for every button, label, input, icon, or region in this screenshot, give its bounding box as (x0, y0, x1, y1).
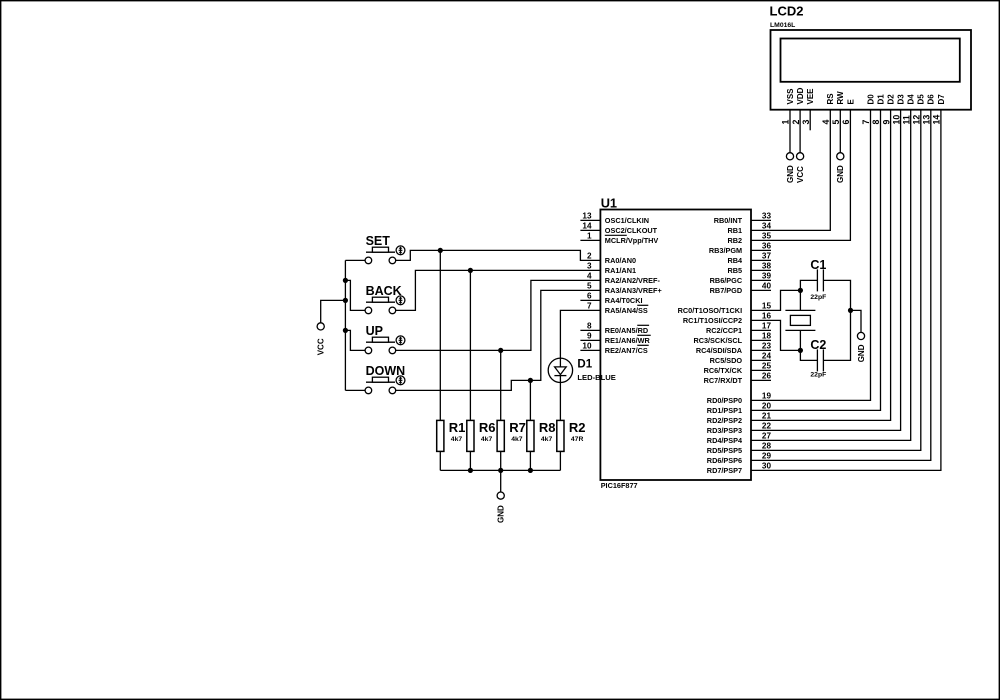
svg-text:R7: R7 (509, 420, 526, 435)
svg-text:5: 5 (587, 282, 592, 291)
svg-text:VDD: VDD (796, 87, 805, 104)
svg-text:19: 19 (762, 392, 772, 401)
svg-text:D5: D5 (917, 94, 926, 105)
svg-text:RA4/T0CKI: RA4/T0CKI (605, 296, 643, 305)
U1 pin 37 (RB4) (727, 252, 771, 265)
junction UP/R7 (498, 348, 503, 353)
svg-text:RS: RS (826, 93, 835, 105)
wire DOWN to U1 pin 5 (RA3) (392, 290, 600, 390)
wire LCD2 pin 1 (VSS) to GND terminal (789, 110, 791, 154)
op-amp U1 body (PIC16F877 microcontroller) (600, 196, 751, 490)
svg-text:MCLR/Vpp/THV: MCLR/Vpp/THV (605, 236, 659, 245)
U1 pin 36 (RB3/PGM) (709, 242, 772, 255)
svg-text:40: 40 (762, 282, 772, 291)
svg-text:D0: D0 (866, 94, 875, 105)
ground terminal (resistor rail) (497, 492, 506, 523)
svg-text:RD1/PSP1: RD1/PSP1 (707, 406, 742, 415)
svg-text:24: 24 (762, 352, 772, 361)
LCD2 pin 6 label (E) (841, 99, 855, 125)
U1 pin 30 (RD7/PSP7) (707, 462, 772, 475)
svg-text:29: 29 (762, 452, 772, 461)
LCD2 pin 9 label (D2) (881, 94, 895, 125)
svg-text:D2: D2 (887, 94, 896, 105)
U1 pin 19 (RD0/PSP0) (707, 392, 772, 405)
svg-text:6: 6 (587, 292, 592, 301)
U1 pin 18 (RC3/SCK/SCL) (693, 332, 771, 345)
svg-text:GND: GND (497, 505, 506, 523)
svg-text:RD5/PSP5: RD5/PSP5 (707, 446, 742, 455)
wire R8 top lead to DOWN net (529, 380, 531, 420)
wire cap bus to GND terminal near crystal (851, 310, 862, 332)
wire rail to UP left terminal (345, 330, 368, 350)
resistor R2 (47R) (557, 420, 586, 452)
U1 pin 8 (RE0/AN5/RD) (580, 322, 649, 335)
svg-text:37: 37 (762, 252, 772, 261)
LCD2 pin 8 label (D1) (871, 94, 885, 125)
svg-text:D6: D6 (927, 94, 936, 105)
svg-text:7: 7 (861, 120, 871, 125)
wire U1 pin 35 (RB2) to LCD2 E pin 6 (751, 110, 850, 241)
svg-text:R1: R1 (449, 420, 466, 435)
svg-text:RB4: RB4 (727, 256, 743, 265)
wire SET to U1 pin 2 (RA0) (392, 250, 600, 260)
ground terminal (LCD VSS) (786, 153, 795, 183)
diode D1 (LED-BLUE) (548, 358, 616, 382)
U1 pin 40 (RB7/PGD) (710, 282, 772, 295)
svg-text:4k7: 4k7 (451, 436, 463, 443)
LCD2 pin 1 label (VSS) (781, 88, 795, 125)
svg-text:39: 39 (762, 272, 772, 281)
U1 pin 26 (RC7/RX/DT) (704, 372, 772, 385)
svg-text:RD2/PSP2: RD2/PSP2 (707, 416, 742, 425)
push button UP (365, 324, 405, 354)
wire R7 top lead to UP net (500, 350, 502, 420)
LCD2 pin 13 label (D6) (922, 94, 936, 125)
U1 pin 10 (RE2/AN7/CS) (580, 342, 648, 355)
svg-text:2: 2 (587, 252, 592, 261)
wire rail to VCC terminal (321, 300, 346, 323)
U1 pin 4 (RA2/AN2/VREF-) (587, 272, 661, 285)
junction SET/R1 (438, 248, 443, 253)
svg-text:11: 11 (901, 115, 911, 124)
svg-text:GND: GND (786, 165, 795, 183)
junction rail/R8 (528, 468, 533, 473)
svg-text:D1: D1 (577, 359, 592, 371)
U1 pin 25 (RC6/TX/CK) (704, 362, 772, 375)
svg-text:RC2/CCP1: RC2/CCP1 (706, 326, 742, 335)
svg-text:RA3/AN3/VREF+: RA3/AN3/VREF+ (605, 286, 662, 295)
svg-text:RB3/PGM: RB3/PGM (709, 246, 742, 255)
svg-text:16: 16 (762, 312, 772, 321)
svg-text:22: 22 (762, 422, 772, 431)
svg-text:4k7: 4k7 (481, 436, 493, 443)
crystal X1 (785, 310, 815, 330)
svg-text:13: 13 (582, 212, 592, 221)
svg-text:4k7: 4k7 (511, 436, 523, 443)
junction crystal top/pin15 (798, 288, 803, 293)
U1 pin 27 (RD4/PSP4) (707, 432, 772, 445)
resistor R1 (4k7) (437, 420, 466, 452)
svg-text:26: 26 (762, 372, 772, 381)
svg-text:GND: GND (857, 344, 866, 362)
resistor R8 (4k7) (527, 420, 556, 452)
svg-text:VEE: VEE (806, 88, 815, 105)
junction rail/BACK (343, 278, 348, 283)
U1 pin 9 (RE1/AN6/WR) (580, 332, 650, 345)
svg-text:35: 35 (762, 232, 772, 241)
svg-text:RB6/PGC: RB6/PGC (710, 276, 743, 285)
svg-text:2: 2 (791, 120, 801, 125)
svg-text:VCC: VCC (317, 338, 326, 355)
wire R6 top lead to BACK net (469, 270, 471, 420)
svg-text:3: 3 (801, 120, 811, 125)
LCD2 pin 11 label (D4) (901, 94, 915, 125)
svg-text:U1: U1 (601, 196, 617, 211)
wire rail to BACK left terminal (345, 280, 368, 310)
svg-text:LM016L: LM016L (770, 22, 795, 29)
svg-text:RC0/T1OSO/T1CKI: RC0/T1OSO/T1CKI (678, 306, 742, 315)
U1 pin 20 (RD1/PSP1) (707, 402, 772, 415)
svg-text:6: 6 (841, 120, 851, 125)
wire rail to SET left terminal (345, 259, 368, 261)
svg-text:36: 36 (762, 242, 772, 251)
LCD2 pin 14 label (D7) (932, 94, 946, 125)
svg-text:LED-BLUE: LED-BLUE (577, 373, 615, 382)
wire crystal top node to C1 left (800, 280, 817, 310)
svg-text:27: 27 (762, 432, 772, 441)
U1 pin 39 (RB6/PGC) (710, 272, 772, 285)
svg-text:22pF: 22pF (810, 294, 826, 301)
svg-text:10: 10 (891, 115, 901, 125)
junction BACK/R6 (468, 268, 473, 273)
U1 pin 22 (RD3/PSP3) (707, 422, 772, 435)
svg-text:25: 25 (762, 362, 772, 371)
svg-text:22pF: 22pF (810, 371, 826, 378)
wire U1 pin 19 (RD bus) to LCD2 D0 pin 7 (751, 110, 871, 401)
power terminal VCC (LCD VDD) (796, 153, 805, 183)
svg-text:RB1: RB1 (727, 226, 742, 235)
U1 pin 16 (RC1/T1OSI/CCP2) (683, 312, 772, 325)
wire U1 pin 7 (RA5) to D1 anode (560, 310, 600, 358)
svg-text:28: 28 (762, 442, 772, 451)
U1 pin 35 (RB2) (727, 232, 771, 245)
svg-text:4: 4 (587, 272, 592, 281)
svg-text:UP: UP (366, 324, 383, 338)
svg-text:RA0/AN0: RA0/AN0 (605, 256, 636, 265)
svg-text:30: 30 (762, 462, 772, 471)
svg-text:RD6/PSP6: RD6/PSP6 (707, 456, 742, 465)
wire VCC rail (left of buttons) (344, 260, 346, 390)
svg-text:RC3/SCK/SCL: RC3/SCK/SCL (693, 336, 742, 345)
svg-text:18: 18 (762, 332, 772, 341)
resistor R6 (4k7) (467, 420, 496, 452)
U1 pin 17 (RC2/CCP1) (706, 322, 771, 335)
U1 pin 7 (RA5/AN4/SS) (587, 302, 648, 315)
junction rail/GND (498, 468, 503, 473)
LCD2 pin 2 label (VDD) (791, 87, 805, 124)
U1 pin 1 (MCLR/Vpp/THV) (580, 232, 658, 245)
svg-text:RE2/AN7/CS: RE2/AN7/CS (605, 346, 648, 355)
U1 pin 3 (RA1/AN1) (587, 262, 636, 275)
push button SET (365, 234, 405, 264)
svg-text:RB5: RB5 (727, 266, 742, 275)
svg-text:8: 8 (871, 120, 881, 125)
svg-text:RC7/RX/DT: RC7/RX/DT (704, 376, 743, 385)
svg-text:R8: R8 (539, 420, 556, 435)
svg-text:7: 7 (587, 302, 592, 311)
svg-text:12: 12 (912, 115, 922, 125)
wire U1 pin 15 (RC0/T1OSO) to crystal top node (751, 290, 800, 310)
svg-text:D1: D1 (876, 94, 885, 105)
LCD2 pin 10 label (D3) (891, 94, 905, 125)
junction rail/UP (343, 328, 348, 333)
svg-text:D7: D7 (937, 94, 946, 105)
svg-text:RE0/AN5/RD: RE0/AN5/RD (605, 326, 648, 335)
svg-text:RE1/AN6/WR: RE1/AN6/WR (605, 336, 651, 345)
U1 pin 38 (RB5) (727, 262, 771, 275)
ground terminal (crystal) (857, 332, 866, 362)
wire U1 pin 16 (RC1/T1OSI) to crystal bottom node (751, 320, 800, 350)
wire C1 right / C2 right vertical bus (823, 280, 850, 360)
svg-text:PIC16F877: PIC16F877 (601, 481, 638, 490)
svg-text:1: 1 (587, 232, 592, 241)
capacitor C1 (22pF) (810, 258, 826, 301)
svg-text:RC5/SDO: RC5/SDO (710, 356, 743, 365)
svg-text:RD3/PSP3: RD3/PSP3 (707, 426, 742, 435)
U1 pin 13 (OSC1/CLKIN) (580, 212, 649, 225)
svg-text:RA2/AN2/VREF-: RA2/AN2/VREF- (605, 276, 661, 285)
svg-text:LCD2: LCD2 (770, 4, 804, 19)
svg-text:RD7/PSP7: RD7/PSP7 (707, 466, 742, 475)
junction DOWN/R8 (528, 378, 533, 383)
LCD2 pin 12 label (D5) (912, 94, 926, 125)
svg-text:RC4/SDI/SDA: RC4/SDI/SDA (696, 346, 743, 355)
wire U1 pin 27 (RD bus) to LCD2 D4 pin 11 (751, 110, 911, 441)
wire bottom rail to GND terminal (500, 470, 502, 492)
svg-text:RB0/INT: RB0/INT (714, 216, 743, 225)
svg-text:SET: SET (366, 234, 391, 248)
svg-text:13: 13 (922, 115, 932, 125)
svg-text:21: 21 (762, 412, 772, 421)
svg-text:RB2: RB2 (727, 236, 742, 245)
capacitor C2 (22pF) (810, 338, 826, 379)
ground terminal (LCD RW) (836, 153, 845, 183)
wire rail to DOWN left terminal (345, 389, 368, 391)
svg-text:14: 14 (932, 115, 942, 125)
wire crystal bottom node to C2 left (800, 330, 817, 360)
LCD2 pin 7 label (D0) (861, 94, 875, 125)
power terminal VCC (button rail) (317, 323, 326, 356)
svg-text:17: 17 (762, 322, 772, 331)
wire UP to U1 pin 4 (RA2) (392, 280, 600, 350)
junction rail/R6 (468, 468, 473, 473)
svg-text:5: 5 (831, 120, 841, 125)
svg-text:RC6/TX/CK: RC6/TX/CK (704, 366, 743, 375)
svg-text:RA1/AN1: RA1/AN1 (605, 266, 636, 275)
svg-text:BACK: BACK (366, 284, 402, 298)
svg-text:GND: GND (836, 165, 845, 183)
wire U1 pin 34 (RB1) to LCD2 RS pin 4 (751, 110, 830, 231)
U1 pin 2 (RA0/AN0) (587, 252, 636, 265)
wire U1 pin 20 (RD bus) to LCD2 D1 pin 8 (751, 110, 881, 411)
U1 pin 5 (RA3/AN3/VREF+) (587, 282, 662, 295)
svg-text:RW: RW (836, 91, 845, 105)
svg-text:OSC1/CLKIN: OSC1/CLKIN (605, 216, 649, 225)
svg-text:RD4/PSP4: RD4/PSP4 (707, 436, 743, 445)
svg-text:10: 10 (582, 342, 592, 351)
U1 pin 33 (RB0/INT) (714, 212, 772, 225)
svg-text:4: 4 (821, 120, 831, 125)
display LCD2 body (LM016L) (770, 4, 972, 110)
svg-text:C2: C2 (810, 338, 826, 352)
svg-text:R2: R2 (569, 420, 586, 435)
svg-text:3: 3 (587, 262, 592, 271)
svg-text:VCC: VCC (796, 166, 805, 183)
svg-text:9: 9 (587, 332, 592, 341)
U1 pin 24 (RC5/SDO) (710, 352, 772, 365)
U1 pin 6 (RA4/T0CKI) (580, 292, 642, 305)
svg-text:23: 23 (762, 342, 772, 351)
U1 pin 29 (RD6/PSP6) (707, 452, 772, 465)
svg-text:OSC2/CLKOUT: OSC2/CLKOUT (605, 226, 658, 235)
svg-text:D4: D4 (907, 94, 916, 105)
wire U1 pin 30 (RD bus) to LCD2 D7 pin 14 (751, 110, 941, 471)
U1 pin 23 (RC4/SDI/SDA) (696, 342, 772, 355)
svg-text:E: E (846, 99, 855, 105)
wire U1 pin 28 (RD bus) to LCD2 D5 pin 12 (751, 110, 921, 451)
U1 pin 34 (RB1) (727, 222, 771, 235)
wire R1 top lead to SET net (439, 250, 441, 420)
junction cap bus/GND (848, 308, 853, 313)
LCD2 pin 5 label (RW) (831, 91, 845, 125)
U1 pin 14 (OSC2/CLKOUT) (580, 222, 657, 235)
svg-text:R6: R6 (479, 420, 496, 435)
svg-text:RA5/AN4/SS: RA5/AN4/SS (605, 306, 648, 315)
svg-text:34: 34 (762, 222, 772, 231)
svg-text:RB7/PGD: RB7/PGD (710, 286, 742, 295)
wire U1 pin 22 (RD bus) to LCD2 D3 pin 10 (751, 110, 901, 431)
svg-text:33: 33 (762, 212, 772, 221)
junction rail/VCC (343, 298, 348, 303)
svg-text:9: 9 (881, 120, 891, 125)
U1 pin 21 (RD2/PSP2) (707, 412, 772, 425)
resistor R7 (4k7) (497, 420, 526, 452)
push button DOWN (365, 364, 405, 394)
svg-text:14: 14 (582, 222, 592, 231)
svg-text:38: 38 (762, 262, 772, 271)
wire D1 cathode to R2 top (559, 382, 561, 420)
wire LCD2 pin 2 (VDD) to VCC terminal (799, 110, 801, 154)
svg-text:15: 15 (762, 302, 772, 311)
svg-text:RD0/PSP0: RD0/PSP0 (707, 396, 742, 405)
svg-text:20: 20 (762, 402, 772, 411)
wire U1 pin 29 (RD bus) to LCD2 D6 pin 13 (751, 110, 931, 461)
svg-text:D3: D3 (897, 94, 906, 105)
wire LCD2 pin 3 (VEE) stub (809, 110, 811, 131)
svg-text:VSS: VSS (786, 88, 795, 105)
LCD2 pin 3 label (VEE) (801, 88, 815, 125)
svg-text:4k7: 4k7 (541, 436, 553, 443)
wire U1 pin 21 (RD bus) to LCD2 D2 pin 9 (751, 110, 891, 421)
svg-text:C1: C1 (810, 258, 826, 272)
svg-text:RC1/T1OSI/CCP2: RC1/T1OSI/CCP2 (683, 316, 742, 325)
push button BACK (365, 284, 405, 314)
wire LCD2 pin 5 (RW) to GND terminal (839, 110, 841, 154)
wire resistor bottom rail (440, 451, 560, 470)
wire BACK to U1 pin 3 (RA1) (392, 270, 600, 310)
LCD2 pin 4 label (RS) (821, 93, 835, 125)
svg-text:8: 8 (587, 322, 592, 331)
U1 pin 28 (RD5/PSP5) (707, 442, 772, 455)
U1 pin 15 (RC0/T1OSO/T1CKI) (678, 302, 772, 315)
junction crystal bottom/pin16 (798, 348, 803, 353)
svg-text:1: 1 (781, 120, 791, 125)
svg-text:47R: 47R (571, 436, 584, 443)
